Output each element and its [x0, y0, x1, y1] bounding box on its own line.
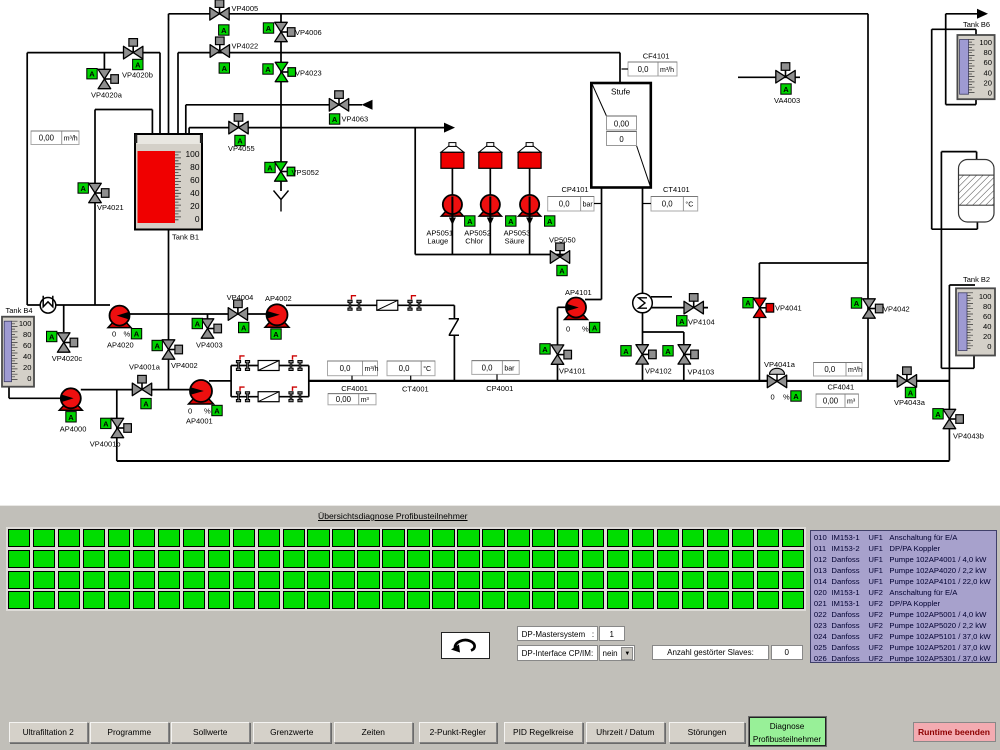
svg-text:Tank B4: Tank B4: [6, 306, 33, 315]
svg-text:AP4000: AP4000: [60, 425, 87, 434]
filter 3: [258, 392, 279, 402]
svg-text:A: A: [221, 26, 227, 35]
wire left riser: [26, 53, 28, 305]
svg-text:CF4001: CF4001: [341, 384, 368, 393]
svg-text:VP4041a: VP4041a: [764, 360, 796, 369]
wire tank B6 outlet up: [945, 14, 947, 105]
svg-text:VP4055: VP4055: [228, 144, 255, 153]
wire module riser: [931, 29, 933, 229]
flange pair 3: [236, 356, 249, 371]
slave list box: [810, 530, 997, 663]
wire Stufe right drop: [642, 188, 644, 294]
svg-text:0: 0: [112, 330, 116, 339]
valve VP4001a: [132, 375, 151, 395]
valve VP4022: [210, 37, 229, 57]
svg-text:VP4002: VP4002: [171, 361, 198, 370]
svg-text:Chlor: Chlor: [465, 237, 483, 246]
dosing pump AP5053: [519, 195, 541, 225]
dosing pump AP5051: [441, 195, 463, 225]
svg-text:A: A: [665, 347, 671, 356]
dosing pump AP5052: [479, 195, 501, 225]
wire tank B6 feed header: [932, 28, 976, 30]
svg-text:Stufe: Stufe: [611, 88, 631, 97]
wire tank B1 pipe c: [168, 14, 170, 144]
indicator A VP4021: [78, 183, 88, 193]
svg-text:0,0: 0,0: [399, 364, 411, 373]
svg-text:Tank B1: Tank B1: [172, 233, 199, 242]
wire flow box line: [95, 109, 152, 111]
svg-text:VP4005: VP4005: [232, 4, 259, 13]
wire VP4103 drop: [683, 332, 685, 381]
diagnosis panel title: [318, 511, 468, 521]
wire chem supply drop: [414, 128, 416, 255]
wire hx branch h: [643, 331, 684, 333]
slave status row 1: [6, 505, 8, 507]
indicator A VP4043b: [933, 409, 943, 419]
wire VP4043b riser: [948, 285, 950, 461]
svg-text:0,00: 0,00: [614, 119, 630, 128]
svg-text:A: A: [134, 330, 140, 339]
wire branch to VP4041 horizontal: [759, 262, 868, 264]
svg-text:AP4020: AP4020: [107, 341, 134, 350]
wire tank B2 feed riser: [940, 152, 942, 369]
svg-text:VP4004: VP4004: [227, 293, 254, 302]
valve VP4001b: [111, 418, 131, 437]
indicator A VP4001b: [101, 418, 111, 428]
valve VP4063: [329, 91, 348, 111]
indicator A VP4041: [743, 298, 753, 308]
svg-text:0: 0: [566, 325, 570, 334]
wire AP4101 top pipe: [585, 299, 602, 301]
svg-text:Säure: Säure: [505, 237, 525, 246]
svg-text:A: A: [195, 320, 201, 329]
svg-text:Tank B6: Tank B6: [963, 20, 990, 29]
flange pair 4: [289, 356, 302, 371]
svg-text:A: A: [222, 64, 228, 73]
valve VP4101: [551, 345, 571, 364]
flange pair 2: [408, 296, 421, 311]
valve VP4020b: [124, 39, 143, 59]
svg-text:VP4104: VP4104: [688, 318, 715, 327]
svg-text:VP4063: VP4063: [342, 115, 369, 124]
wire tank B1 pipe d: [177, 53, 179, 144]
wire branch to VP4041 vertical: [758, 263, 760, 381]
svg-text:80: 80: [983, 302, 991, 311]
svg-text:VA4003: VA4003: [774, 96, 800, 105]
svg-text:A: A: [266, 24, 272, 33]
wire module top stub: [976, 152, 978, 160]
indicator A AP4001: [212, 405, 222, 415]
indicator A VP4003: [192, 318, 202, 328]
wire VP4001b drop: [116, 390, 118, 461]
wire main line: [309, 380, 950, 382]
tank level indicator Tank B6: [957, 35, 994, 99]
value display CT4101: [651, 197, 698, 212]
svg-text:0: 0: [988, 89, 992, 98]
svg-text:60: 60: [190, 175, 200, 185]
control valve VP4041a: [767, 368, 786, 387]
svg-text:°C: °C: [685, 201, 693, 209]
svg-text:VP4020c: VP4020c: [52, 354, 83, 363]
svg-text:100: 100: [186, 149, 200, 159]
svg-text:CF4101: CF4101: [643, 52, 670, 61]
wire tank B2 top bracket: [949, 284, 975, 286]
water seal symbol: [40, 296, 56, 313]
valve VP4020c: [57, 333, 77, 352]
wire tank B1 pipe a: [151, 110, 153, 145]
svg-text:A: A: [214, 407, 220, 416]
wire tank B1 pipe e: [185, 105, 187, 144]
runtime button: [913, 722, 996, 742]
wire tank B6 outlet bottom: [946, 104, 976, 106]
indicator A VP4004: [239, 322, 249, 332]
svg-text:A: A: [68, 413, 74, 422]
indicator A AP5052: [506, 216, 516, 226]
svg-text:%: %: [124, 330, 131, 339]
slave status row 4: [6, 505, 8, 507]
svg-text:A: A: [80, 184, 86, 193]
indicator A VP4055: [235, 135, 245, 145]
wire VP4020c stub: [63, 305, 65, 332]
wire H3 drain header: [186, 104, 362, 106]
wire H4 VP4055 header: [189, 127, 445, 129]
svg-text:80: 80: [23, 330, 31, 339]
chemical tank AP5052: [479, 143, 502, 169]
wire CF4101 tick: [622, 68, 629, 70]
valve VP4003: [201, 319, 221, 338]
svg-text:VP4006: VP4006: [295, 28, 322, 37]
wire VP4101 riser: [557, 307, 559, 381]
indicator A VP4043a: [905, 387, 915, 397]
tank level indicator Tank B2: [956, 288, 995, 355]
indicator A VP4103: [663, 346, 673, 356]
svg-text:A: A: [793, 392, 799, 401]
filter 2: [258, 361, 279, 371]
svg-text:A: A: [265, 65, 271, 74]
DP interface field: [517, 645, 598, 661]
svg-text:0,0: 0,0: [662, 200, 674, 209]
wire lauge line: [451, 168, 453, 255]
wire filterbank right conn: [308, 366, 310, 397]
valve VP4102: [636, 345, 656, 364]
indicator A VP4063: [329, 114, 339, 124]
indicator A AP4000: [66, 412, 76, 422]
indicator A VP4104: [677, 316, 687, 326]
indicator A VPS052: [265, 162, 275, 172]
indicator A VP4020c: [47, 331, 57, 341]
svg-text:80: 80: [190, 162, 200, 172]
value display CF4001 total: [328, 394, 376, 405]
wire CP4101 tick: [594, 203, 602, 205]
svg-text:20: 20: [190, 201, 200, 211]
indicator A AP5053: [545, 216, 555, 226]
indicator A VA4003: [781, 84, 791, 94]
svg-text:°C: °C: [423, 365, 431, 373]
Stufe block: [591, 83, 651, 188]
wire riser VP4006 chain: [280, 14, 282, 191]
wire tank B6 feed stub: [975, 29, 977, 35]
svg-text:20: 20: [23, 363, 31, 372]
svg-text:AP4002: AP4002: [265, 294, 292, 303]
valve VP4021: [89, 183, 109, 202]
value display CP4001: [472, 361, 519, 375]
wire module bottom header: [932, 228, 978, 230]
slave status row 2: [6, 505, 8, 507]
wire CF4001 tick: [351, 376, 353, 381]
svg-text:0: 0: [987, 342, 991, 351]
wire break riser top: [453, 305, 455, 319]
wire VA4003 line: [738, 76, 800, 78]
svg-text:VP4003: VP4003: [196, 340, 223, 349]
valve VP4020a: [98, 69, 118, 88]
navigation buttons: [9, 722, 88, 743]
pump AP4101: [565, 298, 588, 320]
heat exchanger W4100: [633, 293, 653, 313]
svg-text:bar: bar: [583, 202, 594, 209]
svg-text:80: 80: [984, 48, 992, 57]
wire lower left header: [27, 304, 110, 306]
pipe break symbol: [449, 319, 459, 336]
value display flow B1: [31, 131, 79, 145]
svg-text:A: A: [241, 324, 247, 333]
svg-text:0: 0: [619, 135, 624, 144]
svg-text:VP4041: VP4041: [775, 304, 802, 313]
svg-text:A: A: [679, 317, 685, 326]
svg-text:A: A: [154, 342, 160, 351]
value display CF4041 total: [816, 394, 859, 408]
wire AP4101 suction: [558, 306, 567, 308]
wire AP4000 discharge header: [81, 389, 191, 391]
svg-text:A: A: [143, 400, 149, 409]
wire filterbank top branch: [231, 365, 309, 367]
wire H2 right header: [178, 52, 620, 54]
svg-text:100: 100: [19, 319, 32, 328]
svg-text:%: %: [204, 407, 211, 416]
svg-text:VP4020b: VP4020b: [122, 71, 153, 80]
svg-text:VP4020a: VP4020a: [91, 91, 123, 100]
svg-text:A: A: [267, 164, 273, 173]
svg-text:40: 40: [983, 322, 991, 331]
wire CT4101 tick: [643, 203, 652, 205]
svg-text:m³/h: m³/h: [365, 366, 379, 373]
svg-text:40: 40: [190, 188, 200, 198]
indicator A AP4002: [271, 329, 281, 339]
svg-text:VP4042: VP4042: [883, 305, 910, 314]
value display CF4101: [628, 62, 677, 76]
wire tank B4 outlet h: [9, 397, 61, 399]
value display CF4001 flow: [328, 361, 379, 376]
indicator A VP5050: [557, 265, 567, 275]
wire VP4104 line: [651, 307, 709, 309]
svg-text:VP4102: VP4102: [645, 367, 672, 376]
svg-text:CP4001: CP4001: [486, 384, 513, 393]
wire AP4002 discharge: [286, 304, 454, 306]
svg-text:%: %: [783, 393, 790, 402]
reset button: [441, 632, 490, 659]
chemical tank AP5053: [518, 143, 541, 169]
pump AP4020: [108, 306, 131, 328]
indicator A VP4022: [219, 63, 229, 73]
wire CT4001 tick: [410, 376, 412, 381]
chemical tank AP5051: [441, 143, 464, 169]
diagnose button: [749, 717, 826, 746]
wire filterbank left conn: [230, 366, 232, 397]
indicator A VP4102: [621, 346, 631, 356]
wire module top header: [941, 151, 976, 153]
valve VP5050: [550, 243, 569, 263]
indicator A VP4101: [540, 344, 550, 354]
svg-text:20: 20: [984, 78, 992, 87]
indicator A AP4101: [589, 322, 599, 332]
wire Stufe feed drop: [619, 53, 621, 83]
wire hx stub top: [651, 296, 672, 298]
valve VPS052: [275, 162, 295, 181]
indicator A AP4020: [131, 329, 141, 339]
svg-text:VPS052: VPS052: [292, 168, 320, 177]
svg-text:A: A: [935, 410, 941, 419]
svg-text:m³: m³: [847, 399, 856, 406]
flange pair 1: [348, 296, 361, 311]
svg-text:%: %: [582, 325, 589, 334]
pump AP4002: [265, 304, 289, 327]
svg-text:A: A: [467, 217, 473, 226]
svg-text:60: 60: [23, 341, 31, 350]
svg-text:0,0: 0,0: [559, 200, 571, 209]
wire bottom return line: [117, 460, 950, 462]
wire H1 top header: [169, 13, 869, 15]
valve VP4004: [228, 300, 247, 320]
svg-text:CT4101: CT4101: [663, 185, 690, 194]
svg-text:VP4023: VP4023: [295, 69, 322, 78]
svg-text:A: A: [332, 115, 338, 124]
indicator A VP4002: [152, 340, 162, 350]
svg-text:VP4103: VP4103: [688, 368, 715, 377]
svg-text:A: A: [135, 61, 141, 70]
valve VP4002: [162, 340, 182, 359]
valve VP4006: [275, 22, 295, 41]
svg-text:0,00: 0,00: [39, 134, 55, 143]
valve VP4041: [753, 298, 773, 317]
valve VP4104: [684, 294, 703, 314]
svg-text:A: A: [508, 217, 514, 226]
indicator A VP4020a: [87, 69, 97, 79]
wire saure line: [529, 168, 531, 255]
svg-text:0,0: 0,0: [824, 365, 836, 374]
svg-text:20: 20: [983, 332, 991, 341]
svg-text:VP4001a: VP4001a: [129, 363, 161, 372]
wire AP4020 discharge: [129, 313, 267, 315]
svg-text:VP5050: VP5050: [549, 236, 576, 245]
indicator A VP4041a: [791, 391, 801, 401]
svg-text:A: A: [103, 419, 109, 428]
wire tank B2 bottom header: [941, 367, 974, 369]
svg-text:0: 0: [195, 214, 200, 224]
wire chem header: [415, 254, 569, 256]
svg-text:A: A: [542, 345, 548, 354]
svg-text:m³/h: m³/h: [848, 367, 862, 374]
svg-text:bar: bar: [504, 365, 515, 372]
svg-text:VP4043b: VP4043b: [953, 432, 984, 441]
wire module bottom stub: [976, 222, 978, 230]
svg-text:VP4001b: VP4001b: [90, 440, 121, 449]
flange pair 6: [289, 387, 302, 402]
wire Stufe left drop: [601, 188, 603, 300]
filter 1: [377, 300, 398, 310]
svg-text:A: A: [89, 70, 95, 79]
valve VA4003: [776, 63, 795, 83]
wire AP4001 discharge: [209, 380, 231, 382]
pump AP4000: [59, 388, 82, 410]
valve VP4043a: [897, 367, 916, 387]
svg-text:0,00: 0,00: [823, 397, 839, 406]
wire tank B4 outlet v: [8, 387, 10, 399]
indicator A VP4006: [263, 23, 273, 33]
svg-text:60: 60: [984, 58, 992, 67]
svg-text:A: A: [49, 333, 55, 342]
svg-text:AP4001: AP4001: [186, 417, 213, 426]
svg-text:A: A: [273, 330, 279, 339]
svg-text:Lauge: Lauge: [427, 237, 448, 246]
DP master system field: [517, 626, 598, 642]
flange pair 5: [236, 387, 249, 402]
svg-text:m³/h: m³/h: [64, 136, 78, 143]
wire tank B6 outlet stub: [975, 99, 977, 105]
wire VP4020a stub: [103, 53, 105, 71]
wire tank B1 pipe f: [188, 128, 190, 144]
wire filterbank bottom branch: [231, 396, 309, 398]
indicator A VP4042: [851, 298, 861, 308]
svg-text:0: 0: [188, 407, 192, 416]
svg-text:0: 0: [771, 393, 775, 402]
svg-text:CF4041: CF4041: [828, 383, 855, 392]
valve VP4103: [678, 345, 698, 364]
value display CT4001: [387, 361, 435, 376]
wire H2 left header: [27, 52, 160, 54]
value display CF4041 flow: [814, 363, 863, 377]
wire chlor line: [489, 168, 491, 255]
wire VP4021 riser: [94, 110, 96, 306]
indicator A VP4005: [219, 25, 229, 35]
wire VP4003 stub: [207, 314, 209, 321]
svg-text:m³/h: m³/h: [660, 67, 674, 74]
svg-text:A: A: [559, 267, 565, 276]
svg-text:VP4021: VP4021: [97, 203, 124, 212]
value display CP4101: [548, 197, 594, 212]
drain Y symbol: [274, 191, 289, 212]
wire hx drop: [642, 313, 644, 381]
svg-text:A: A: [908, 389, 914, 398]
svg-text:0,0: 0,0: [340, 364, 352, 373]
indicator A VP4020b: [133, 59, 143, 69]
svg-text:0,0: 0,0: [482, 363, 494, 372]
disturbed slaves field: [652, 645, 769, 660]
valve VP4042: [863, 299, 883, 318]
svg-text:m³: m³: [361, 397, 370, 404]
slave status row 3: [6, 505, 8, 507]
svg-text:A: A: [623, 347, 629, 356]
svg-text:A: A: [547, 217, 553, 226]
svg-text:VP4022: VP4022: [232, 42, 259, 51]
valve VP4005: [210, 0, 229, 20]
svg-text:Tank B2: Tank B2: [963, 275, 990, 284]
svg-text:100: 100: [979, 292, 992, 301]
valve VP4043b: [943, 409, 963, 428]
valve VP4023: [275, 62, 295, 81]
svg-text:0,0: 0,0: [638, 65, 650, 74]
svg-text:VP4101: VP4101: [559, 367, 586, 376]
svg-text:A: A: [854, 299, 860, 308]
pump AP4001: [189, 380, 214, 404]
